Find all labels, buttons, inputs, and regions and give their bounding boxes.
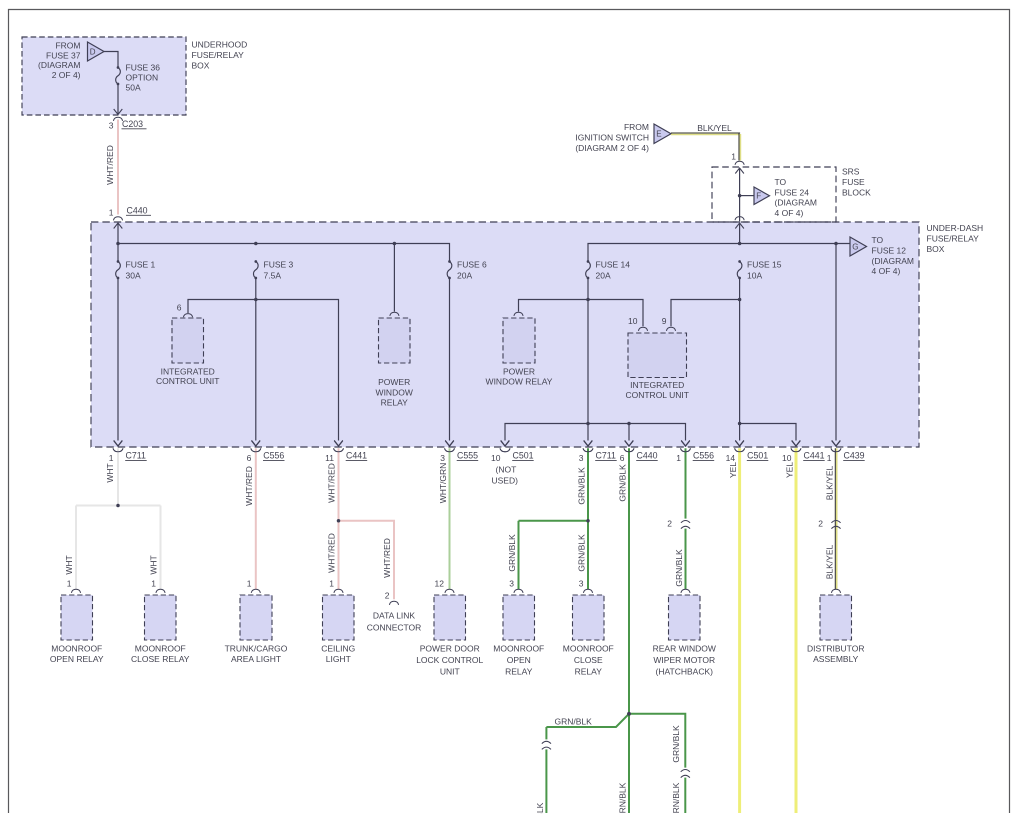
svg-text:WHT: WHT	[105, 463, 115, 482]
svg-text:1: 1	[109, 453, 114, 463]
svg-text:D: D	[90, 47, 96, 56]
svg-text:INTEGRATED: INTEGRATED	[630, 380, 684, 390]
svg-text:C556: C556	[693, 451, 714, 461]
svg-text:12: 12	[435, 579, 445, 589]
svg-text:20A: 20A	[596, 271, 611, 281]
svg-text:ASSEMBLY: ASSEMBLY	[813, 654, 859, 664]
svg-text:6: 6	[177, 303, 182, 313]
svg-text:FROM: FROM	[624, 122, 649, 132]
svg-text:(HATCHBACK): (HATCHBACK)	[656, 667, 714, 677]
svg-text:11: 11	[325, 453, 334, 463]
svg-text:REAR WINDOW: REAR WINDOW	[653, 644, 716, 654]
svg-text:FUSE 14: FUSE 14	[596, 260, 631, 270]
svg-text:BOX: BOX	[192, 61, 210, 71]
svg-text:CONTROL UNIT: CONTROL UNIT	[156, 376, 219, 386]
svg-text:OPTION: OPTION	[126, 73, 159, 83]
svg-text:FUSE/RELAY: FUSE/RELAY	[927, 234, 980, 244]
svg-text:E: E	[656, 130, 661, 139]
svg-text:GRN/BLK: GRN/BLK	[671, 725, 681, 763]
svg-text:14: 14	[726, 453, 736, 463]
svg-text:6: 6	[620, 453, 625, 463]
svg-text:C440: C440	[637, 451, 658, 461]
svg-text:IGNITION SWITCH: IGNITION SWITCH	[575, 132, 649, 142]
svg-text:1: 1	[67, 579, 72, 589]
svg-text:(DIAGRAM 2 OF 4): (DIAGRAM 2 OF 4)	[575, 143, 649, 153]
svg-text:INTEGRATED: INTEGRATED	[161, 367, 215, 377]
svg-text:OPEN RELAY: OPEN RELAY	[50, 654, 104, 664]
svg-text:AREA LIGHT: AREA LIGHT	[231, 654, 281, 664]
svg-text:FUSE/RELAY: FUSE/RELAY	[192, 50, 245, 60]
svg-text:6: 6	[247, 453, 252, 463]
svg-text:GRN/BLK: GRN/BLK	[576, 534, 586, 572]
svg-text:C440: C440	[127, 206, 148, 216]
svg-text:DISTRIBUTOR: DISTRIBUTOR	[807, 644, 864, 654]
svg-text:UNDERHOOD: UNDERHOOD	[192, 40, 248, 50]
svg-text:GRN/BLK: GRN/BLK	[674, 549, 684, 587]
svg-text:FUSE 15: FUSE 15	[747, 260, 782, 270]
svg-text:C441: C441	[804, 451, 825, 461]
svg-text:WINDOW RELAY: WINDOW RELAY	[486, 376, 553, 386]
svg-text:RELAY: RELAY	[505, 667, 533, 677]
svg-text:C203: C203	[122, 119, 143, 129]
svg-text:1: 1	[827, 453, 832, 463]
svg-text:POWER: POWER	[378, 377, 410, 387]
svg-text:C441: C441	[346, 451, 367, 461]
svg-text:4 OF 4): 4 OF 4)	[872, 266, 901, 276]
svg-text:MOONROOF: MOONROOF	[51, 644, 102, 654]
svg-text:3: 3	[579, 453, 584, 463]
svg-text:10A: 10A	[747, 271, 762, 281]
svg-text:C439: C439	[844, 451, 865, 461]
svg-text:2: 2	[818, 519, 823, 529]
svg-text:FUSE 12: FUSE 12	[872, 245, 907, 255]
svg-text:3: 3	[579, 579, 584, 589]
svg-text:TO: TO	[872, 235, 884, 245]
svg-text:GRN/BLK: GRN/BLK	[507, 534, 517, 572]
svg-text:30A: 30A	[126, 271, 141, 281]
svg-text:WHT/GRN: WHT/GRN	[438, 463, 448, 504]
svg-text:WHT: WHT	[149, 555, 159, 574]
svg-text:1: 1	[676, 453, 681, 463]
svg-text:CLOSE: CLOSE	[574, 655, 603, 665]
svg-text:BLK/YEL: BLK/YEL	[697, 123, 732, 133]
svg-text:LOCK CONTROL: LOCK CONTROL	[416, 655, 483, 665]
svg-text:CONTROL UNIT: CONTROL UNIT	[625, 390, 688, 400]
svg-text:MOONROOF: MOONROOF	[135, 644, 186, 654]
svg-text:4 OF 4): 4 OF 4)	[775, 208, 804, 218]
svg-text:C711: C711	[126, 451, 146, 461]
svg-text:WHT/RED: WHT/RED	[105, 145, 115, 185]
svg-text:MOONROOF: MOONROOF	[563, 644, 614, 654]
svg-text:1: 1	[151, 579, 156, 589]
svg-text:POWER DOOR: POWER DOOR	[420, 644, 480, 654]
svg-text:UNIT: UNIT	[440, 667, 460, 677]
svg-text:10: 10	[628, 316, 638, 326]
svg-text:C501: C501	[747, 451, 768, 461]
svg-text:1: 1	[731, 152, 736, 162]
svg-text:GRN/BLK: GRN/BLK	[576, 467, 586, 505]
svg-text:WHT/RED: WHT/RED	[382, 538, 392, 578]
svg-text:FUSE: FUSE	[842, 177, 865, 187]
svg-text:C711: C711	[596, 451, 616, 461]
svg-text:YEL: YEL	[784, 462, 794, 478]
svg-text:2: 2	[385, 591, 390, 601]
svg-text:9: 9	[662, 316, 667, 326]
svg-text:1: 1	[247, 579, 252, 589]
svg-text:WHT/RED: WHT/RED	[327, 533, 337, 573]
svg-text:BLK/YEL: BLK/YEL	[824, 544, 834, 579]
svg-text:(NOT: (NOT	[496, 465, 517, 475]
svg-text:1: 1	[109, 208, 114, 218]
svg-text:7.5A: 7.5A	[264, 271, 282, 281]
svg-text:WIPER MOTOR: WIPER MOTOR	[653, 655, 715, 665]
svg-text:UNDER-DASH: UNDER-DASH	[927, 223, 984, 233]
svg-text:WHT/RED: WHT/RED	[327, 463, 337, 503]
svg-text:RELAY: RELAY	[575, 667, 603, 677]
svg-text:WHT/RED: WHT/RED	[244, 466, 254, 506]
svg-text:F: F	[756, 192, 761, 201]
svg-text:BLK/YEL: BLK/YEL	[824, 465, 834, 500]
svg-text:MOONROOF: MOONROOF	[493, 644, 544, 654]
svg-text:50A: 50A	[126, 83, 141, 93]
svg-text:RELAY: RELAY	[381, 398, 409, 408]
svg-text:(DIAGRAM: (DIAGRAM	[38, 60, 81, 70]
svg-text:BLOCK: BLOCK	[842, 188, 871, 198]
svg-text:OPEN: OPEN	[507, 655, 531, 665]
svg-text:DATA LINK: DATA LINK	[373, 611, 416, 621]
svg-text:WINDOW: WINDOW	[376, 387, 413, 397]
svg-text:FUSE 37: FUSE 37	[46, 50, 81, 60]
svg-text:2: 2	[667, 519, 672, 529]
svg-text:BOX: BOX	[927, 244, 945, 254]
svg-text:LIGHT: LIGHT	[326, 654, 351, 664]
svg-text:G: G	[852, 242, 858, 251]
svg-text:2 OF 4): 2 OF 4)	[52, 70, 81, 80]
svg-text:GRN/BLK: GRN/BLK	[617, 464, 627, 502]
svg-text:TO: TO	[775, 177, 787, 187]
svg-text:(DIAGRAM: (DIAGRAM	[872, 256, 915, 266]
svg-text:FUSE 6: FUSE 6	[457, 260, 487, 270]
svg-text:C555: C555	[457, 451, 478, 461]
svg-text:TRUNK/CARGO: TRUNK/CARGO	[225, 644, 288, 654]
svg-text:C501: C501	[513, 451, 534, 461]
svg-text:YEL: YEL	[728, 462, 738, 478]
svg-text:POWER: POWER	[503, 367, 535, 377]
svg-text:CONNECTOR: CONNECTOR	[367, 623, 422, 633]
svg-text:FUSE 24: FUSE 24	[775, 187, 810, 197]
svg-text:FUSE 36: FUSE 36	[126, 63, 161, 73]
svg-text:C556: C556	[263, 451, 284, 461]
svg-text:1: 1	[329, 579, 334, 589]
svg-text:USED): USED)	[492, 475, 519, 485]
svg-text:3: 3	[109, 121, 114, 131]
svg-text:FUSE 3: FUSE 3	[264, 260, 294, 270]
svg-text:10: 10	[491, 453, 501, 463]
svg-text:SRS: SRS	[842, 167, 860, 177]
svg-text:3: 3	[509, 579, 514, 589]
svg-text:CEILING: CEILING	[321, 644, 355, 654]
svg-text:CLOSE RELAY: CLOSE RELAY	[131, 654, 190, 664]
svg-text:20A: 20A	[457, 271, 472, 281]
svg-text:(DIAGRAM: (DIAGRAM	[775, 198, 818, 208]
svg-text:3: 3	[440, 453, 445, 463]
svg-text:FROM: FROM	[55, 41, 80, 51]
svg-text:10: 10	[782, 453, 792, 463]
svg-text:GRN/BLK: GRN/BLK	[555, 716, 593, 726]
svg-text:FUSE 1: FUSE 1	[126, 260, 156, 270]
svg-text:WHT: WHT	[64, 555, 74, 574]
